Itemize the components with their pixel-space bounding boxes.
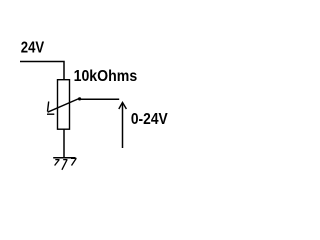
wiper arrow diagonal [48, 98, 80, 112]
wiper arrowhead barb horizontal [47, 113, 54, 115]
ground hatch 2 [62, 160, 68, 170]
svg-text:0-24V: 0-24V [131, 111, 168, 128]
svg-text:10kOhms: 10kOhms [74, 68, 138, 85]
output voltage arrow shaft [122, 103, 124, 148]
junction dot wiper node [78, 97, 81, 100]
ground bar [53, 157, 75, 159]
wire wiper output [80, 98, 120, 100]
svg-text:24V: 24V [21, 40, 45, 57]
output voltage arrowhead [119, 102, 127, 109]
potentiometer R1 body [58, 80, 70, 130]
wire from 24V to potentiometer top [20, 62, 64, 80]
ground hatch 3 [71, 158, 77, 165]
wiper arrowhead barb vertical [48, 102, 49, 112]
wire potentiometer bottom to ground [63, 129, 65, 158]
ground hatch 1 [55, 160, 60, 166]
